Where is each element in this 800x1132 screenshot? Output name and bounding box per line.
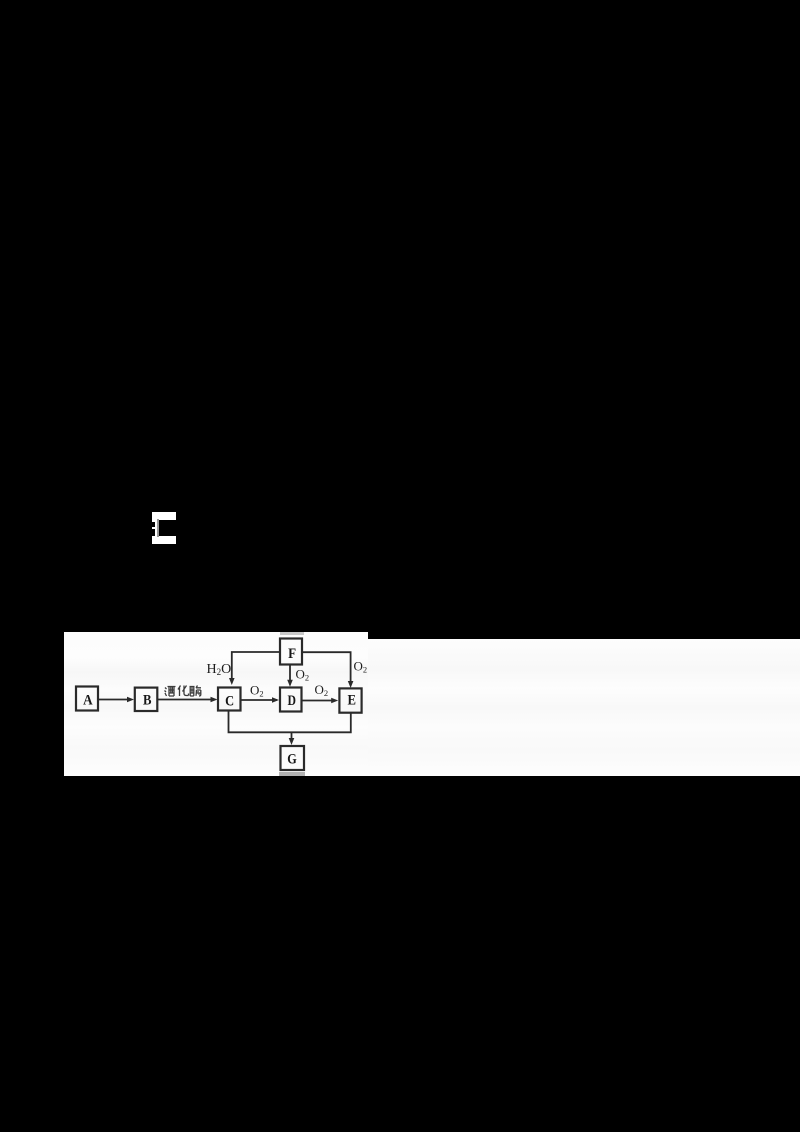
small white bracket artifact black notch [151, 522, 155, 527]
wire F left then down to C [232, 652, 280, 683]
arrowhead into C [211, 697, 218, 703]
svg-text:E: E [348, 693, 357, 709]
arrowhead into G [289, 738, 295, 745]
arrowhead into E top [348, 681, 354, 688]
box D [280, 688, 302, 712]
svg-text:O2: O2 [354, 659, 368, 675]
svg-text:F: F [288, 646, 296, 662]
arrowhead into E [331, 698, 338, 704]
box G [281, 746, 305, 770]
label jiuhuameiu (Chinese pseudo glyphs) [165, 686, 202, 697]
arrowhead F into D [287, 680, 293, 687]
wire bottom loop C to E [229, 711, 351, 733]
letters in boxes [83, 646, 356, 768]
arrow C to D [241, 699, 278, 701]
small white bracket artifact grey line [157, 519, 159, 537]
small white bracket artifact black notch 2 [150, 529, 155, 536]
arrow D to E [302, 700, 336, 702]
white scan band left part [64, 632, 368, 776]
arrow B to C [157, 699, 214, 701]
svg-text:A: A [83, 692, 93, 708]
char hua [178, 686, 189, 697]
grey strip above box F [280, 632, 304, 635]
svg-text:O2: O2 [315, 682, 329, 698]
box B [135, 688, 158, 711]
arrow F down to D [289, 665, 291, 685]
arrowhead into D [272, 697, 279, 703]
svg-text:O2: O2 [296, 667, 310, 683]
box E [339, 688, 361, 712]
svg-text:O2: O2 [250, 683, 264, 699]
wire branch down to G [291, 732, 293, 742]
arrow A to B [98, 699, 132, 701]
chemical labels [207, 659, 368, 699]
white scan band right part [368, 639, 800, 776]
grey strip below box G [279, 772, 305, 776]
char mei [190, 686, 202, 697]
svg-text:C: C [225, 693, 234, 709]
char jiu [165, 687, 176, 697]
box C [218, 688, 241, 711]
small white bracket artifact bottom bar [152, 536, 176, 544]
svg-text:B: B [143, 692, 152, 708]
svg-text:H2O: H2O [207, 662, 232, 677]
svg-text:D: D [288, 693, 297, 709]
svg-text:G: G [287, 751, 297, 767]
arrowhead into B [127, 697, 134, 703]
small white bracket artifact top bar [152, 512, 176, 520]
arrowhead into C top [229, 678, 235, 685]
box F [280, 639, 302, 665]
wire F right then down to E [302, 652, 351, 685]
small white bracket artifact left column [152, 519, 157, 537]
box A [76, 687, 98, 711]
flowchart svg [0, 0, 800, 800]
